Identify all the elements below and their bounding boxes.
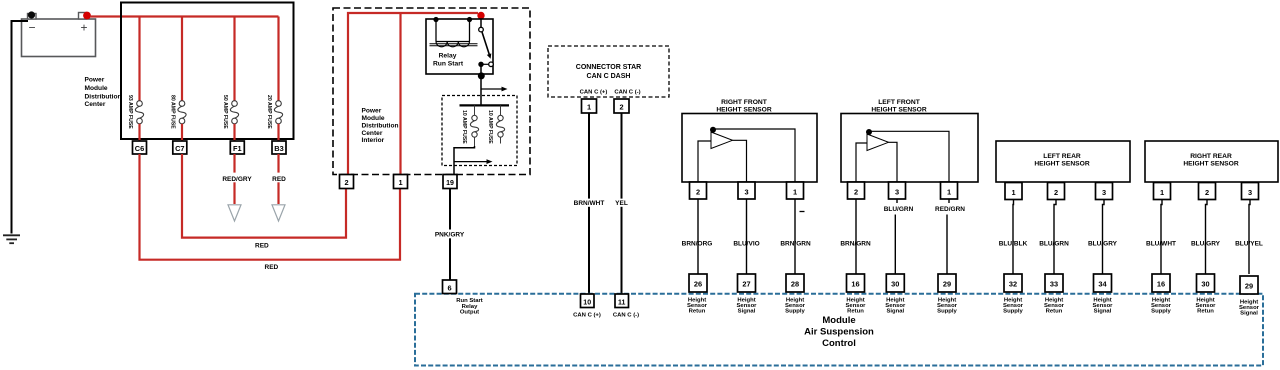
- svg-text:Control: Control: [822, 338, 856, 349]
- sensor RIGHT REAR HEIGHT SENSOR: [1145, 141, 1278, 182]
- wire branch arrow right: [481, 87, 508, 92]
- svg-text:Retun: Retun: [1197, 309, 1214, 315]
- pin 2 LR: [1048, 183, 1065, 200]
- pin 1 LF: [941, 182, 958, 199]
- svg-text:CAN C (-): CAN C (-): [614, 90, 640, 96]
- svg-text:BLU/GRN: BLU/GRN: [1039, 240, 1069, 247]
- wire pin1 to connector 32 BLU/BLK: [1012, 199, 1015, 274]
- svg-text:1: 1: [1011, 188, 1015, 197]
- pin label Height Sensor Retun: [1196, 298, 1217, 315]
- connector 33: [1045, 274, 1063, 292]
- svg-text:B3: B3: [274, 144, 283, 153]
- CONNECTOR STAR CAN C DASH box: [548, 46, 669, 97]
- svg-text:29: 29: [943, 280, 951, 289]
- label Power Module Distribution Center Interior: [362, 107, 399, 144]
- connector 10: [581, 294, 595, 308]
- bus bar: [460, 104, 510, 106]
- connector 19: [443, 175, 457, 189]
- wire fuse branch B3: [277, 17, 279, 101]
- connector 34: [1094, 274, 1112, 292]
- svg-text:Output: Output: [460, 310, 479, 316]
- svg-text:C7: C7: [175, 144, 184, 153]
- svg-text:3: 3: [1102, 188, 1106, 197]
- svg-text:Retun: Retun: [847, 309, 864, 315]
- svg-text:Retun: Retun: [689, 309, 706, 315]
- svg-text:16: 16: [1157, 280, 1165, 289]
- svg-text:HEIGHT SENSOR: HEIGHT SENSOR: [871, 107, 927, 114]
- svg-text:BRN/GRN: BRN/GRN: [840, 240, 871, 247]
- wire pin3 to connector 27 BLU/VIO: [746, 199, 748, 274]
- wire B3 output RED: [277, 154, 279, 173]
- pin 1 RR: [1154, 183, 1171, 200]
- svg-text:Signal: Signal: [886, 309, 904, 315]
- wire pin3 to connector 29 BLU/YEL: [1249, 199, 1250, 274]
- svg-text:3: 3: [744, 187, 748, 196]
- pin 2 RR: [1199, 183, 1216, 200]
- battery positive terminal: [83, 12, 91, 20]
- sensor RIGHT FRONT HEIGHT SENSOR: [682, 99, 817, 182]
- svg-text:1: 1: [1160, 188, 1164, 197]
- op-amp symbol LF: [856, 129, 949, 183]
- svg-text:2: 2: [1205, 188, 1209, 197]
- svg-text:RED: RED: [272, 176, 286, 183]
- svg-text:BRN/ORG: BRN/ORG: [682, 240, 713, 247]
- label Power Module Distribution Center: [85, 77, 122, 109]
- pin 1 RF: [787, 182, 804, 199]
- wire pin2 to connector 30 BLU/GRY: [1206, 199, 1208, 274]
- svg-text:C6: C6: [135, 144, 144, 153]
- relay switch: [478, 19, 493, 74]
- svg-text:50 AMP FUSE: 50 AMP FUSE: [222, 95, 228, 129]
- svg-text:BLU/WHT: BLU/WHT: [1146, 240, 1176, 247]
- wire relay output down: [480, 76, 482, 105]
- svg-text:27: 27: [742, 280, 750, 289]
- pin 2 LF: [848, 182, 865, 199]
- svg-text:3: 3: [895, 187, 899, 196]
- svg-text:RIGHT FRONT: RIGHT FRONT: [721, 99, 768, 106]
- connector C6: [133, 141, 147, 154]
- svg-text:10 AMP FUSE: 10 AMP FUSE: [487, 110, 493, 144]
- svg-text:BLU/BLK: BLU/BLK: [999, 240, 1028, 247]
- pin label Height Sensor Supply: [785, 298, 806, 315]
- connector 26: [689, 274, 707, 292]
- svg-text:BLU/VIO: BLU/VIO: [733, 240, 759, 247]
- wire pin3 to connector 34 BLU/GRY: [1103, 199, 1105, 274]
- wire fuse branch C6: [138, 17, 140, 101]
- connector 2: [340, 175, 354, 189]
- wire pin2 to connector 26 BRN/ORG: [697, 199, 699, 274]
- svg-text:CAN C (-): CAN C (-): [613, 312, 639, 318]
- svg-text:10: 10: [583, 299, 591, 306]
- pin label Height Sensor Signal: [1239, 300, 1260, 317]
- svg-text:Distribution: Distribution: [85, 93, 122, 100]
- svg-text:16: 16: [851, 280, 859, 289]
- wire YEL: [621, 113, 623, 199]
- label Module Air Suspension Control: [804, 315, 874, 349]
- connector 32: [1004, 274, 1022, 292]
- svg-text:Supply: Supply: [1003, 309, 1023, 315]
- svg-text:2: 2: [1054, 188, 1058, 197]
- pin 2 RF: [690, 182, 707, 199]
- svg-text:Module: Module: [85, 85, 108, 92]
- stray dash mark: [800, 211, 805, 213]
- svg-text:Module: Module: [822, 315, 855, 326]
- svg-text:34: 34: [1098, 280, 1107, 289]
- fuse 50 AMP FUSE: [222, 95, 239, 129]
- connector 6: [443, 280, 457, 294]
- battery B+: [22, 13, 96, 57]
- svg-text:PNK/GRY: PNK/GRY: [435, 231, 465, 238]
- svg-text:1: 1: [947, 187, 951, 196]
- svg-text:11: 11: [618, 299, 626, 306]
- connector 30 RR: [1197, 274, 1215, 292]
- fuse 93 AMP FUSE: [127, 95, 144, 129]
- svg-text:BLU/GRY: BLU/GRY: [1191, 240, 1221, 247]
- wire pin1 to connector 16 BLU/WHT: [1161, 199, 1162, 274]
- svg-text:Power: Power: [362, 107, 382, 114]
- connector 27: [738, 274, 756, 292]
- off-page arrow F1: [228, 205, 241, 221]
- op-amp symbol RF: [698, 127, 795, 183]
- svg-text:10 AMP FUSE: 10 AMP FUSE: [461, 110, 467, 144]
- svg-text:29: 29: [1245, 282, 1253, 291]
- pin label Height Sensor Signal: [737, 298, 758, 315]
- svg-text:CAN C DASH: CAN C DASH: [587, 73, 631, 80]
- wire pin2 to connector 16 BRN/GRN: [855, 199, 857, 274]
- svg-text:−: −: [28, 21, 35, 35]
- connector 29 RR: [1240, 276, 1258, 294]
- svg-text:33: 33: [1050, 280, 1058, 289]
- pin label Run Start Relay Output: [456, 298, 483, 316]
- svg-text:28: 28: [791, 280, 799, 289]
- svg-text:Center: Center: [85, 101, 106, 108]
- pin label Height Sensor Signal: [1093, 298, 1114, 315]
- svg-text:LEFT REAR: LEFT REAR: [1043, 153, 1081, 160]
- pin 3 RF: [738, 182, 755, 199]
- connector 28: [786, 274, 804, 292]
- wire battery negative to ground: [12, 21, 29, 234]
- svg-text:26: 26: [694, 280, 702, 289]
- svg-text:YEL: YEL: [615, 200, 628, 207]
- Power Module Distribution Center Interior dashed box: [333, 8, 530, 175]
- node red relay feed: [477, 12, 484, 19]
- svg-text:19: 19: [446, 180, 454, 187]
- module dashed boundary Air Suspension Control: [415, 294, 1263, 366]
- connector 16 RR: [1152, 274, 1170, 292]
- sensor LEFT FRONT HEIGHT SENSOR: [841, 99, 978, 182]
- relay coil terminal nodes: [433, 17, 438, 22]
- pin label Height Sensor Supply: [1151, 298, 1172, 315]
- relay Run Start box: [426, 19, 493, 74]
- svg-text:HEIGHT SENSOR: HEIGHT SENSOR: [716, 107, 772, 114]
- svg-text:Power: Power: [85, 77, 105, 84]
- pin label Height Sensor Retun: [687, 298, 708, 315]
- svg-text:32: 32: [1009, 280, 1017, 289]
- pin label Height Sensor Supply: [1003, 298, 1024, 315]
- svg-text:CONNECTOR STAR: CONNECTOR STAR: [576, 64, 641, 71]
- svg-text:2: 2: [344, 178, 348, 187]
- svg-text:Supply: Supply: [1151, 309, 1171, 315]
- fuse 80 AMP FUSE: [170, 95, 187, 129]
- pin label Height Sensor Supply: [937, 298, 958, 315]
- connector C7: [173, 141, 187, 154]
- svg-text:Retun: Retun: [1046, 309, 1063, 315]
- wire battery positive red bus: [90, 15, 279, 17]
- svg-text:LEFT FRONT: LEFT FRONT: [878, 99, 921, 106]
- sensor LEFT REAR HEIGHT SENSOR: [996, 141, 1130, 182]
- svg-text:Signal: Signal: [1240, 311, 1258, 317]
- svg-text:BLU/GRY: BLU/GRY: [1088, 240, 1118, 247]
- wire branch arrow right lower: [454, 159, 493, 164]
- svg-text:Center: Center: [362, 130, 383, 137]
- connector 1: [394, 175, 408, 189]
- connector 29: [938, 274, 956, 292]
- svg-text:RED/GRY: RED/GRY: [222, 176, 252, 183]
- svg-text:2: 2: [696, 187, 700, 196]
- svg-text:Air Suspension: Air Suspension: [804, 327, 874, 338]
- svg-text:HEIGHT SENSOR: HEIGHT SENSOR: [1183, 161, 1239, 168]
- fuse 10 AMP FUSE right: [487, 105, 505, 144]
- pin label Height Sensor Retun: [846, 298, 867, 315]
- wire pin2 to connector 33 BLU/GRN: [1054, 199, 1056, 274]
- svg-text:RIGHT REAR: RIGHT REAR: [1190, 153, 1232, 160]
- wire RED C6 to connector 1: [140, 154, 401, 260]
- wire pin3 to connector 30 BLU/GRN: [896, 199, 898, 203]
- relay coil: [430, 19, 478, 47]
- pin 2: [614, 99, 629, 113]
- svg-text:93 AMP FUSE: 93 AMP FUSE: [127, 95, 133, 129]
- svg-text:1: 1: [793, 187, 797, 196]
- svg-text:BRN/WHT: BRN/WHT: [574, 200, 605, 207]
- wire fuse branch F1: [233, 17, 235, 101]
- battery negative terminal: [28, 11, 35, 18]
- svg-text:Distribution: Distribution: [362, 122, 399, 129]
- svg-text:RED: RED: [255, 243, 269, 250]
- connector B3: [272, 141, 286, 154]
- wire fuse branch C7: [181, 17, 183, 101]
- wire pin1 to connector 29 RED/GRN: [948, 199, 950, 203]
- svg-text:BLU/GRN: BLU/GRN: [884, 206, 914, 213]
- svg-text:CAN C (+): CAN C (+): [573, 312, 601, 318]
- svg-text:BLU/YEL: BLU/YEL: [1235, 240, 1263, 247]
- svg-text:RED: RED: [265, 264, 279, 271]
- svg-text:Run Start: Run Start: [433, 60, 464, 67]
- connector F1: [230, 141, 244, 154]
- svg-text:20 AMP FUSE: 20 AMP FUSE: [266, 95, 272, 129]
- svg-text:RED/GRN: RED/GRN: [935, 206, 965, 213]
- pin 3 LR: [1096, 183, 1113, 200]
- pin label Height Sensor Signal: [885, 298, 906, 315]
- svg-text:BRN/GRN: BRN/GRN: [780, 240, 811, 247]
- svg-text:Signal: Signal: [1094, 309, 1112, 315]
- fuse 20 AMP FUSE: [266, 95, 283, 129]
- connector 16: [847, 274, 865, 292]
- svg-text:1: 1: [587, 103, 591, 112]
- svg-text:Interior: Interior: [362, 137, 385, 144]
- pin 3 LF: [889, 182, 906, 199]
- pin 1: [582, 99, 597, 113]
- svg-text:F1: F1: [233, 144, 242, 153]
- pin 1 LR: [1005, 183, 1022, 200]
- wire fuse output elbow to connector 19: [454, 146, 475, 175]
- svg-text:30: 30: [891, 280, 899, 289]
- node relay output junction: [478, 72, 485, 79]
- svg-text:Supply: Supply: [785, 309, 805, 315]
- ground: [3, 235, 20, 243]
- wire pin1 to connector 28 BRN/GRN: [794, 199, 796, 274]
- svg-text:HEIGHT SENSOR: HEIGHT SENSOR: [1034, 161, 1090, 168]
- connector 30: [886, 274, 904, 292]
- pin label Height Sensor Retun: [1044, 298, 1065, 315]
- svg-text:1: 1: [398, 178, 402, 187]
- svg-text:6: 6: [447, 283, 451, 292]
- wire red interior feed: [348, 13, 478, 176]
- svg-text:CAN C (+): CAN C (+): [580, 90, 608, 96]
- svg-text:3: 3: [1248, 188, 1252, 197]
- wire F1 output RED/GRY: [233, 154, 235, 173]
- wire red interior to connector 1: [399, 13, 401, 176]
- svg-text:30: 30: [1201, 280, 1209, 289]
- fuse 10 AMP FUSE left: [461, 105, 479, 146]
- svg-text:Relay: Relay: [439, 53, 457, 60]
- wire BRN/WHT: [588, 113, 590, 199]
- pin 3 RR: [1242, 183, 1259, 200]
- interior fuse dashed box: [442, 96, 517, 166]
- svg-text:Supply: Supply: [937, 309, 957, 315]
- svg-text:Signal: Signal: [738, 309, 756, 315]
- svg-text:2: 2: [854, 187, 858, 196]
- svg-text:2: 2: [619, 103, 623, 112]
- off-page arrow B3: [272, 205, 285, 221]
- Power Module Distribution Center box: [121, 3, 294, 140]
- connector 11: [615, 294, 629, 308]
- svg-text:Module: Module: [362, 115, 385, 122]
- wire RED C7 to connector 2: [182, 154, 346, 238]
- svg-text:+: +: [80, 21, 87, 35]
- wire PNK/GRY run start relay output: [449, 189, 451, 230]
- svg-text:80 AMP FUSE: 80 AMP FUSE: [170, 95, 176, 129]
